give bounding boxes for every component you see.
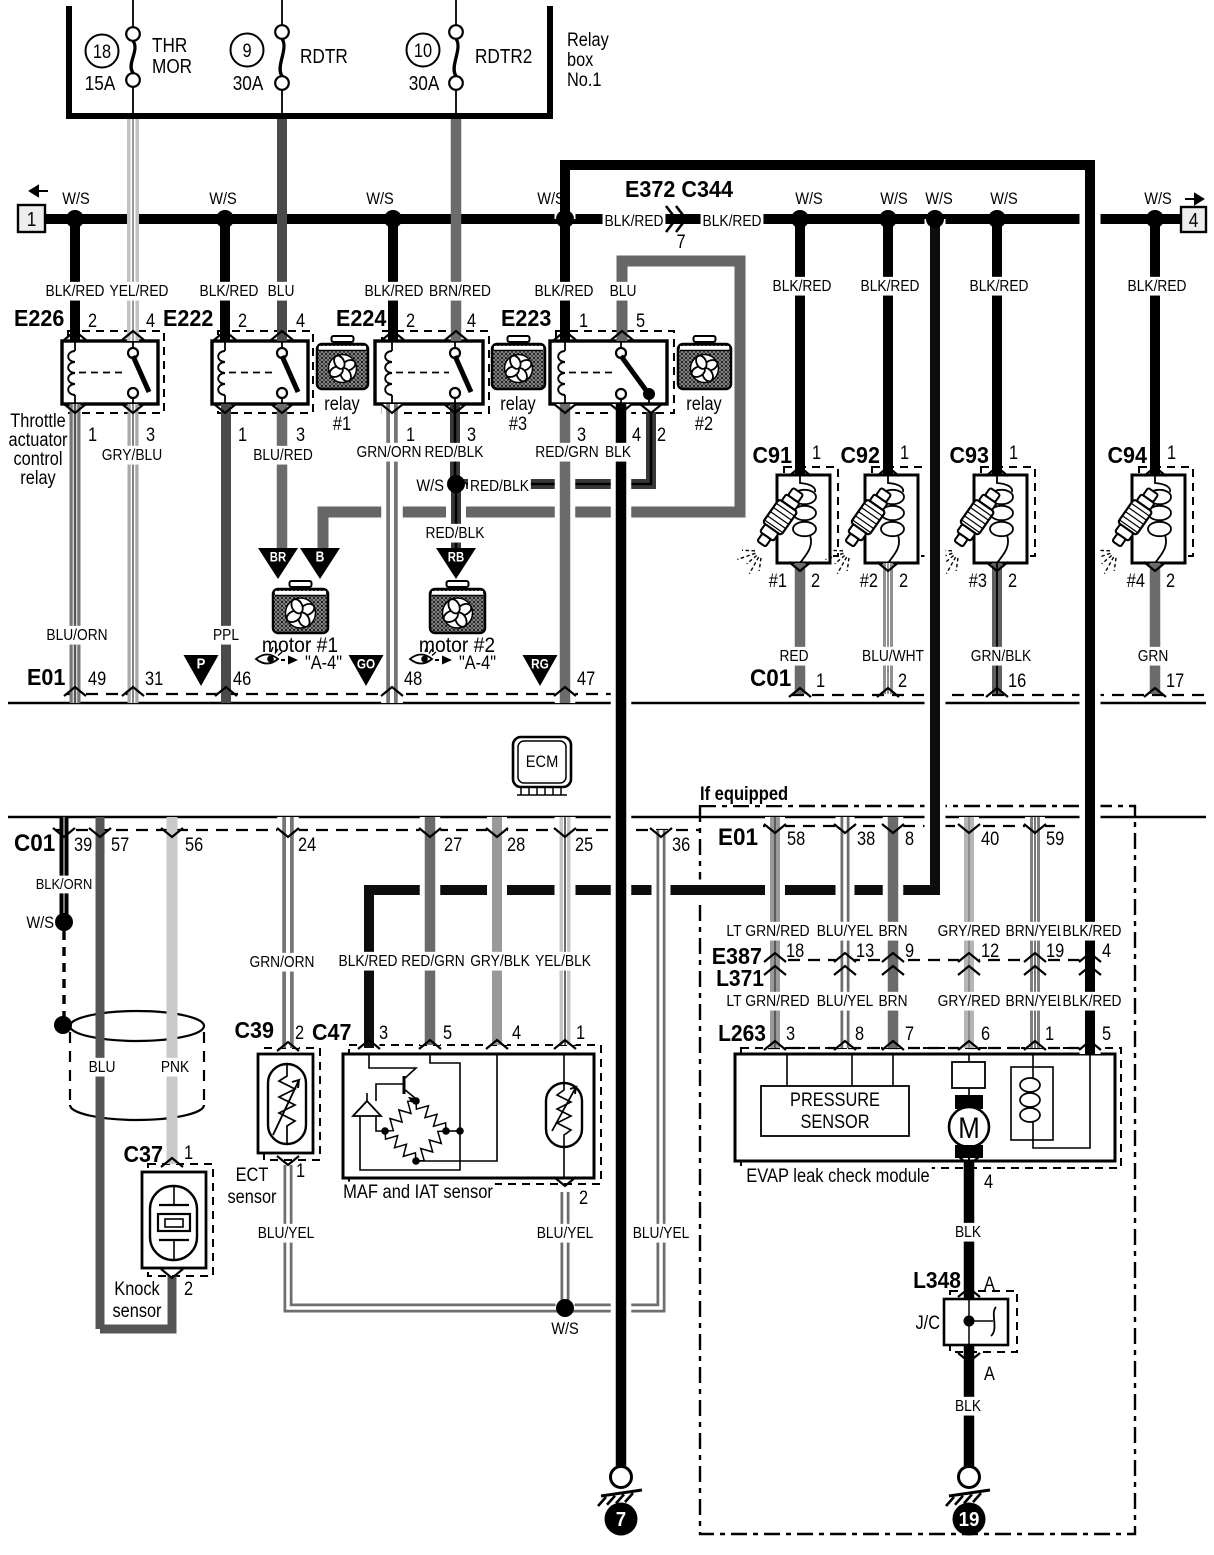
- svg-text:BLU/RED: BLU/RED: [253, 447, 313, 464]
- relay #2 icon: [694, 336, 716, 342]
- svg-text:THR: THR: [152, 35, 187, 57]
- svg-text:GRN/ORN: GRN/ORN: [357, 444, 422, 461]
- wire BLK E223 pin4 to ground 7: [611, 404, 632, 1466]
- svg-text:"A-4": "A-4": [305, 653, 342, 674]
- svg-text:5: 5: [443, 1023, 452, 1044]
- knock sensor C37 dashed outline: [148, 1164, 213, 1276]
- svg-text:PNK: PNK: [161, 1059, 190, 1076]
- svg-text:#1: #1: [333, 414, 351, 435]
- svg-text:A: A: [984, 1274, 995, 1295]
- svg-text:BLK: BLK: [955, 1398, 981, 1415]
- injector nozzle art: [752, 485, 807, 551]
- svg-text:#3: #3: [969, 571, 987, 592]
- svg-text:BRN/RED: BRN/RED: [429, 283, 491, 300]
- svg-text:GRY/RED: GRY/RED: [938, 923, 1001, 940]
- svg-text:BRN/YEL: BRN/YEL: [1006, 993, 1065, 1010]
- svg-text:ECM: ECM: [526, 752, 559, 771]
- ECM module icon: [513, 737, 571, 787]
- wire BLK EVAP pin4 to L348: [964, 1161, 975, 1299]
- arrow RB: [436, 548, 476, 579]
- svg-text:1: 1: [812, 443, 821, 464]
- svg-text:BLK/RED: BLK/RED: [1128, 278, 1187, 295]
- svg-text:LT GRN/RED: LT GRN/RED: [726, 993, 809, 1010]
- svg-text:19: 19: [1046, 941, 1064, 962]
- wire BLK/RED bus to C92: [883, 219, 893, 475]
- wire BLK/RED bus to E222 pin2: [220, 219, 230, 341]
- svg-text:2: 2: [184, 1279, 193, 1300]
- arrow RG: [523, 655, 558, 686]
- MAF and IAT sensor C47 box: [343, 1054, 594, 1178]
- svg-text:BLU: BLU: [268, 283, 295, 300]
- svg-text:2: 2: [88, 311, 97, 332]
- svg-text:8: 8: [855, 1024, 864, 1045]
- svg-text:7: 7: [616, 1509, 626, 1531]
- svg-text:E01: E01: [718, 824, 758, 851]
- relay E224 box: [375, 341, 483, 404]
- svg-text:L263: L263: [718, 1020, 766, 1046]
- svg-text:W/S: W/S: [62, 189, 90, 208]
- svg-text:BLU/YEL: BLU/YEL: [258, 1225, 315, 1242]
- svg-text:1: 1: [579, 311, 588, 332]
- svg-text:SENSOR: SENSOR: [801, 1112, 870, 1133]
- arrow GO: [349, 655, 384, 686]
- svg-text:1: 1: [27, 209, 37, 231]
- svg-text:1: 1: [88, 425, 97, 446]
- connector C01 (top-right) dashed line: [792, 694, 1206, 696]
- svg-text:W/S: W/S: [416, 476, 444, 495]
- svg-text:3: 3: [786, 1024, 795, 1045]
- svg-text:BLU/WHT: BLU/WHT: [862, 648, 924, 665]
- svg-text:LT GRN/RED: LT GRN/RED: [726, 923, 809, 940]
- injector coil: [1155, 475, 1170, 492]
- svg-text:#4: #4: [1127, 571, 1146, 592]
- svg-text:W/S: W/S: [1144, 189, 1172, 208]
- svg-text:GRN/BLK: GRN/BLK: [971, 648, 1032, 665]
- MAF bridge: [430, 1054, 460, 1132]
- injector box: [777, 475, 830, 563]
- svg-text:W/S: W/S: [537, 189, 565, 208]
- svg-text:YEL/BLK: YEL/BLK: [535, 953, 591, 970]
- svg-text:28: 28: [507, 835, 525, 856]
- wire BLU/RED E222 pin3 to arrow BR: [277, 404, 288, 553]
- svg-text:27: 27: [444, 835, 462, 856]
- ECT thermistor element: [268, 1064, 306, 1144]
- relay #3 icon: [508, 336, 530, 342]
- injector coil: [888, 475, 903, 492]
- svg-text:PPL: PPL: [213, 627, 239, 644]
- wire PNK C01-56 to C37: [167, 817, 178, 1164]
- svg-text:No.1: No.1: [567, 70, 602, 91]
- svg-text:BLK/RED: BLK/RED: [1063, 993, 1122, 1010]
- svg-text:RED: RED: [780, 648, 809, 665]
- svg-text:4: 4: [146, 311, 155, 332]
- junction dot shield 1: [55, 913, 73, 931]
- right section wire labels row2: [724, 992, 811, 1011]
- wire BLU/YEL E01-38 to L263-8: [836, 817, 855, 1048]
- svg-text:2: 2: [579, 1188, 588, 1209]
- svg-text:W/S: W/S: [209, 189, 237, 208]
- relay E222 box: [212, 341, 308, 404]
- injector dashed outline: [872, 467, 926, 556]
- relay E223 dashed outline: [556, 331, 674, 413]
- ECT sensor C39 box: [258, 1054, 313, 1153]
- svg-text:49: 49: [88, 669, 106, 690]
- svg-text:relay: relay: [686, 394, 722, 415]
- svg-text:C01: C01: [750, 665, 791, 692]
- svg-text:GRY/RED: GRY/RED: [938, 993, 1001, 1010]
- wire BLK/RED bus to C93: [992, 219, 1002, 475]
- injector box: [1132, 475, 1185, 563]
- svg-text:58: 58: [787, 829, 805, 850]
- wire W/S shield drain dashed: [62, 931, 65, 1018]
- wire YEL/BLK C01-25 to C47-1: [555, 817, 576, 1045]
- svg-text:BLK/RED: BLK/RED: [773, 278, 832, 295]
- wire RED C91 pin2 to C01-1: [795, 563, 806, 694]
- svg-text:E224: E224: [336, 305, 386, 331]
- svg-text:BLK/RED: BLK/RED: [970, 278, 1029, 295]
- svg-text:59: 59: [1046, 829, 1064, 850]
- knock sensor element: [150, 1186, 197, 1260]
- svg-text:W/S: W/S: [880, 189, 908, 208]
- svg-text:7: 7: [905, 1024, 914, 1045]
- ground 19: [959, 1467, 980, 1488]
- svg-text:BLK/RED: BLK/RED: [365, 283, 424, 300]
- svg-text:16: 16: [1008, 671, 1026, 692]
- MAF amplifier triangle: [353, 1101, 381, 1116]
- svg-text:1: 1: [296, 1161, 305, 1182]
- wire YEL/RED fuse18 to E226 pin4: [127, 119, 139, 341]
- MAF and IAT sensor C47 dashed outline: [349, 1045, 601, 1184]
- svg-text:4: 4: [467, 311, 476, 332]
- svg-text:ECT: ECT: [236, 1165, 269, 1186]
- svg-text:15A: 15A: [85, 73, 116, 95]
- svg-text:BLU/YEL: BLU/YEL: [633, 1225, 690, 1242]
- relay E222 coil: [224, 341, 226, 351]
- motor #2 A-4 reference: [410, 655, 432, 664]
- svg-text:18: 18: [786, 941, 804, 962]
- svg-text:3: 3: [146, 425, 155, 446]
- wire GRY/BLK C01-28 to C47-4: [487, 817, 507, 1045]
- svg-text:BLU/YEL: BLU/YEL: [817, 923, 874, 940]
- svg-text:BLK/RED: BLK/RED: [46, 283, 105, 300]
- wire W/S over path to E387 pin4: [565, 165, 1090, 1054]
- EVAP leak check module box: [735, 1054, 1115, 1161]
- svg-text:24: 24: [298, 835, 317, 856]
- wire BLU/YEL MAF pin2: [556, 1192, 575, 1308]
- connector E01 (top) dashed line: [66, 693, 611, 695]
- IAT thermistor element: [546, 1083, 582, 1147]
- fuse 10 30A RDTR2: [455, 0, 457, 25]
- wire BLU/WHT C92 pin2 to C01-2: [883, 563, 893, 694]
- EVAP solenoid coil: [1011, 1067, 1053, 1140]
- svg-text:relay: relay: [324, 394, 360, 415]
- wire RED/BLK E224 pin3 to junction: [450, 404, 460, 484]
- svg-text:BLK/RED: BLK/RED: [605, 213, 664, 230]
- relay E224 coil: [391, 341, 393, 351]
- injector dashed outline: [784, 467, 838, 556]
- svg-text:6: 6: [981, 1024, 990, 1045]
- svg-text:BLK: BLK: [955, 1224, 981, 1241]
- wire RED/GRN C01-27 to C47-5: [420, 817, 441, 1045]
- svg-text:36: 36: [672, 835, 690, 856]
- ECM upper boundary line: [8, 702, 1206, 705]
- svg-text:30A: 30A: [233, 73, 264, 95]
- wire RED/GRN E223 pin3 to E01-47: [555, 404, 576, 703]
- EVAP leak check module dashed outline: [741, 1048, 1121, 1168]
- wire GRN/BLK C93 pin2 to C01-16: [992, 563, 1002, 694]
- svg-text:L371: L371: [716, 965, 764, 991]
- svg-text:25: 25: [575, 835, 593, 856]
- fuse 9 30A RDTR: [281, 0, 283, 25]
- svg-text:2: 2: [811, 571, 820, 592]
- svg-text:BLU: BLU: [610, 283, 637, 300]
- svg-text:1: 1: [238, 425, 247, 446]
- junction dot shield 2: [54, 1016, 72, 1034]
- wire RED/BLK E223 pin2 run: [456, 412, 651, 484]
- wire BLU fuse9 to E222 pin4: [277, 119, 287, 341]
- connector E01 (bottom-right) dashed line: [763, 825, 1063, 827]
- svg-text:10: 10: [414, 41, 432, 62]
- svg-text:#2: #2: [860, 571, 878, 592]
- MAF internal transistor circuit: [369, 1054, 416, 1079]
- svg-text:RED/BLK: RED/BLK: [425, 444, 484, 461]
- injector nozzle art: [1107, 485, 1162, 551]
- wire BLK/RED bus to E226 pin2: [70, 219, 80, 341]
- svg-text:39: 39: [74, 835, 92, 856]
- injector nozzle art: [949, 485, 1004, 551]
- svg-text:18: 18: [93, 42, 111, 63]
- svg-text:RED/GRN: RED/GRN: [401, 953, 464, 970]
- svg-text:C47: C47: [312, 1019, 352, 1045]
- svg-text:W/S: W/S: [551, 1319, 579, 1338]
- wire color labels row 1: [44, 282, 107, 301]
- svg-text:56: 56: [185, 835, 203, 856]
- wire GRY/RED E01-40 to L263-6: [959, 817, 979, 1048]
- relay box No.1: [69, 6, 550, 116]
- injector dashed outline: [1139, 467, 1193, 556]
- svg-text:GO: GO: [357, 657, 375, 672]
- svg-text:2: 2: [1008, 571, 1017, 592]
- svg-text:2: 2: [295, 1023, 304, 1044]
- svg-text:BLK: BLK: [605, 444, 631, 461]
- relay E224 dashed outline: [382, 331, 489, 413]
- svg-text:If equipped: If equipped: [700, 784, 788, 805]
- svg-text:7: 7: [676, 232, 685, 253]
- svg-text:46: 46: [233, 669, 251, 690]
- junction connector L348 box: [944, 1299, 1008, 1345]
- wire BLK/RED bus to C91: [795, 219, 805, 475]
- pressure sensor box: [761, 1086, 909, 1136]
- svg-text:BRN/YEL: BRN/YEL: [1006, 923, 1065, 940]
- wire BLU/ORN E226 pin1 to E01-49: [70, 404, 81, 703]
- wire GRN C94 pin2 to C01-17: [1150, 563, 1161, 694]
- injector spray: [956, 558, 958, 571]
- svg-text:2: 2: [1166, 571, 1175, 592]
- relay E222 dashed outline: [218, 331, 313, 413]
- wire W/S feed to MAF: [369, 219, 935, 1048]
- svg-text:P: P: [197, 656, 206, 673]
- relay E224 contact: [454, 341, 456, 347]
- svg-text:4: 4: [632, 425, 641, 446]
- svg-text:1: 1: [900, 443, 909, 464]
- wire BRN/RED fuse10 to E224 pin4: [451, 119, 462, 341]
- wire BRN/YEL E01-59 to L263-1: [1025, 817, 1045, 1048]
- shield cylinder: [70, 1011, 204, 1041]
- svg-text:YEL/RED: YEL/RED: [110, 283, 169, 300]
- svg-text:8: 8: [905, 829, 914, 850]
- fuse 18 15A THR MOR: [132, 0, 134, 27]
- svg-text:BRN: BRN: [879, 923, 908, 940]
- svg-text:Throttle: Throttle: [10, 411, 65, 432]
- svg-text:12: 12: [981, 941, 999, 962]
- bottom wire labels: [248, 953, 317, 972]
- svg-text:30A: 30A: [409, 73, 440, 95]
- svg-text:RED/BLK: RED/BLK: [426, 525, 485, 542]
- svg-text:relay: relay: [500, 394, 536, 415]
- svg-text:BLK/RED: BLK/RED: [1063, 923, 1122, 940]
- relay E226 contact: [132, 341, 134, 347]
- connector E387/L371 dashed line: [768, 959, 1100, 961]
- svg-text:BLU/ORN: BLU/ORN: [46, 627, 107, 644]
- svg-text:GRN/ORN: GRN/ORN: [250, 954, 315, 971]
- svg-text:C94: C94: [1108, 442, 1148, 468]
- ECT sensor C39 dashed outline: [264, 1048, 320, 1160]
- svg-text:C92: C92: [841, 442, 881, 468]
- svg-text:48: 48: [404, 669, 422, 690]
- svg-text:BLK/ORN: BLK/ORN: [36, 876, 93, 893]
- wire BLK/RED bus to E223 pin1: [560, 219, 570, 341]
- svg-text:L348: L348: [913, 1267, 961, 1293]
- svg-text:#3: #3: [509, 414, 527, 435]
- bus junction dots: [66, 210, 84, 228]
- relay E223 coil: [564, 341, 566, 351]
- relay #1 icon: [332, 336, 354, 342]
- right section wire labels row1: [724, 922, 811, 941]
- svg-text:C91: C91: [753, 442, 793, 468]
- wire BLU C01-57 through shield: [96, 817, 105, 1329]
- W/S RED/BLK junction labels: [414, 476, 446, 496]
- svg-text:relay: relay: [20, 468, 56, 489]
- wire knock sensor return: [100, 1276, 172, 1329]
- svg-text:E372 C344: E372 C344: [625, 176, 733, 202]
- wire BLK/ORN C01-39: [60, 817, 69, 922]
- svg-text:BLU/YEL: BLU/YEL: [537, 1225, 594, 1242]
- injector nozzle art: [840, 485, 895, 551]
- motor #2 icon: [447, 581, 469, 587]
- svg-text:5: 5: [1102, 1024, 1111, 1045]
- svg-text:#1: #1: [769, 571, 787, 592]
- svg-text:1: 1: [1009, 443, 1018, 464]
- arrow B: [300, 548, 340, 579]
- svg-text:W/S: W/S: [990, 189, 1018, 208]
- svg-text:W/S: W/S: [795, 189, 823, 208]
- svg-text:#2: #2: [695, 414, 713, 435]
- relay E226 box: [62, 341, 158, 404]
- arrow P: [184, 655, 219, 686]
- svg-text:4: 4: [296, 311, 305, 332]
- svg-text:control: control: [14, 449, 63, 470]
- svg-text:E223: E223: [501, 305, 551, 331]
- W/S main bus: [45, 214, 1206, 224]
- svg-text:4: 4: [984, 1172, 993, 1193]
- svg-text:E01: E01: [27, 664, 66, 690]
- wire BLK/RED bus to E224 pin2: [388, 219, 398, 341]
- svg-text:4: 4: [512, 1023, 521, 1044]
- svg-text:C37: C37: [124, 1141, 164, 1167]
- svg-text:1: 1: [1045, 1024, 1054, 1045]
- svg-text:38: 38: [857, 829, 875, 850]
- connector C01 (bottom) dashed line: [56, 829, 700, 831]
- svg-text:Relay: Relay: [567, 30, 609, 51]
- relay E226 coil: [74, 341, 76, 351]
- svg-text:4: 4: [1102, 941, 1111, 962]
- svg-text:Knock: Knock: [114, 1279, 160, 1300]
- injector dashed outline: [981, 467, 1035, 556]
- svg-text:1: 1: [576, 1023, 585, 1044]
- injector coil: [997, 475, 1012, 492]
- injector spray: [1114, 558, 1116, 571]
- svg-text:C93: C93: [950, 442, 990, 468]
- connector E372 C344 chevrons: [666, 206, 676, 232]
- wire BRN E01-8 to L263-7: [883, 817, 904, 1048]
- arrow BR: [258, 548, 298, 579]
- injector box: [974, 475, 1027, 563]
- wire BLU path E223 pin5 to motor arrow B: [323, 261, 740, 553]
- svg-text:C01: C01: [14, 830, 55, 857]
- svg-text:1: 1: [816, 671, 825, 692]
- wire LT GRN/RED E01-58 to L263-3: [765, 817, 785, 1048]
- svg-text:9: 9: [905, 941, 914, 962]
- svg-text:BLK/RED: BLK/RED: [861, 278, 920, 295]
- svg-text:GRY/BLK: GRY/BLK: [470, 953, 530, 970]
- svg-text:3: 3: [379, 1023, 388, 1044]
- node 1 box: [30, 186, 48, 196]
- svg-text:actuator: actuator: [9, 430, 69, 451]
- injector spray: [847, 558, 849, 571]
- svg-text:13: 13: [856, 941, 874, 962]
- injector coil: [800, 475, 815, 492]
- svg-text:BLK/RED: BLK/RED: [535, 283, 594, 300]
- svg-text:5: 5: [636, 311, 645, 332]
- svg-text:RDTR2: RDTR2: [475, 46, 532, 68]
- svg-text:40: 40: [981, 829, 999, 850]
- svg-text:RB: RB: [448, 550, 465, 565]
- svg-text:2: 2: [899, 571, 908, 592]
- wire GRY/BLU E226 pin3 to E01-31: [128, 404, 139, 703]
- svg-text:B: B: [316, 549, 325, 566]
- svg-text:J/C: J/C: [916, 1313, 941, 1334]
- svg-text:W/S: W/S: [26, 913, 54, 932]
- relay E222 contact: [281, 341, 283, 347]
- If equipped dash-dot border: [700, 806, 1135, 1534]
- svg-text:M: M: [958, 1112, 980, 1145]
- svg-text:1: 1: [1167, 443, 1176, 464]
- svg-text:A: A: [984, 1364, 995, 1385]
- ground 7: [611, 1467, 632, 1488]
- svg-text:GRY/BLU: GRY/BLU: [102, 447, 162, 464]
- svg-text:W/S: W/S: [366, 189, 394, 208]
- relay E226 dashed outline: [68, 331, 164, 413]
- svg-text:47: 47: [577, 669, 595, 690]
- relay E223 box: [550, 341, 667, 404]
- svg-text:17: 17: [1166, 671, 1184, 692]
- injector box: [865, 475, 918, 563]
- svg-text:19: 19: [959, 1509, 980, 1531]
- svg-text:MAF and IAT sensor: MAF and IAT sensor: [343, 1182, 493, 1203]
- svg-text:RED/GRN: RED/GRN: [535, 444, 598, 461]
- junction dot W/S RED/BLK: [447, 475, 465, 493]
- svg-text:3: 3: [296, 425, 305, 446]
